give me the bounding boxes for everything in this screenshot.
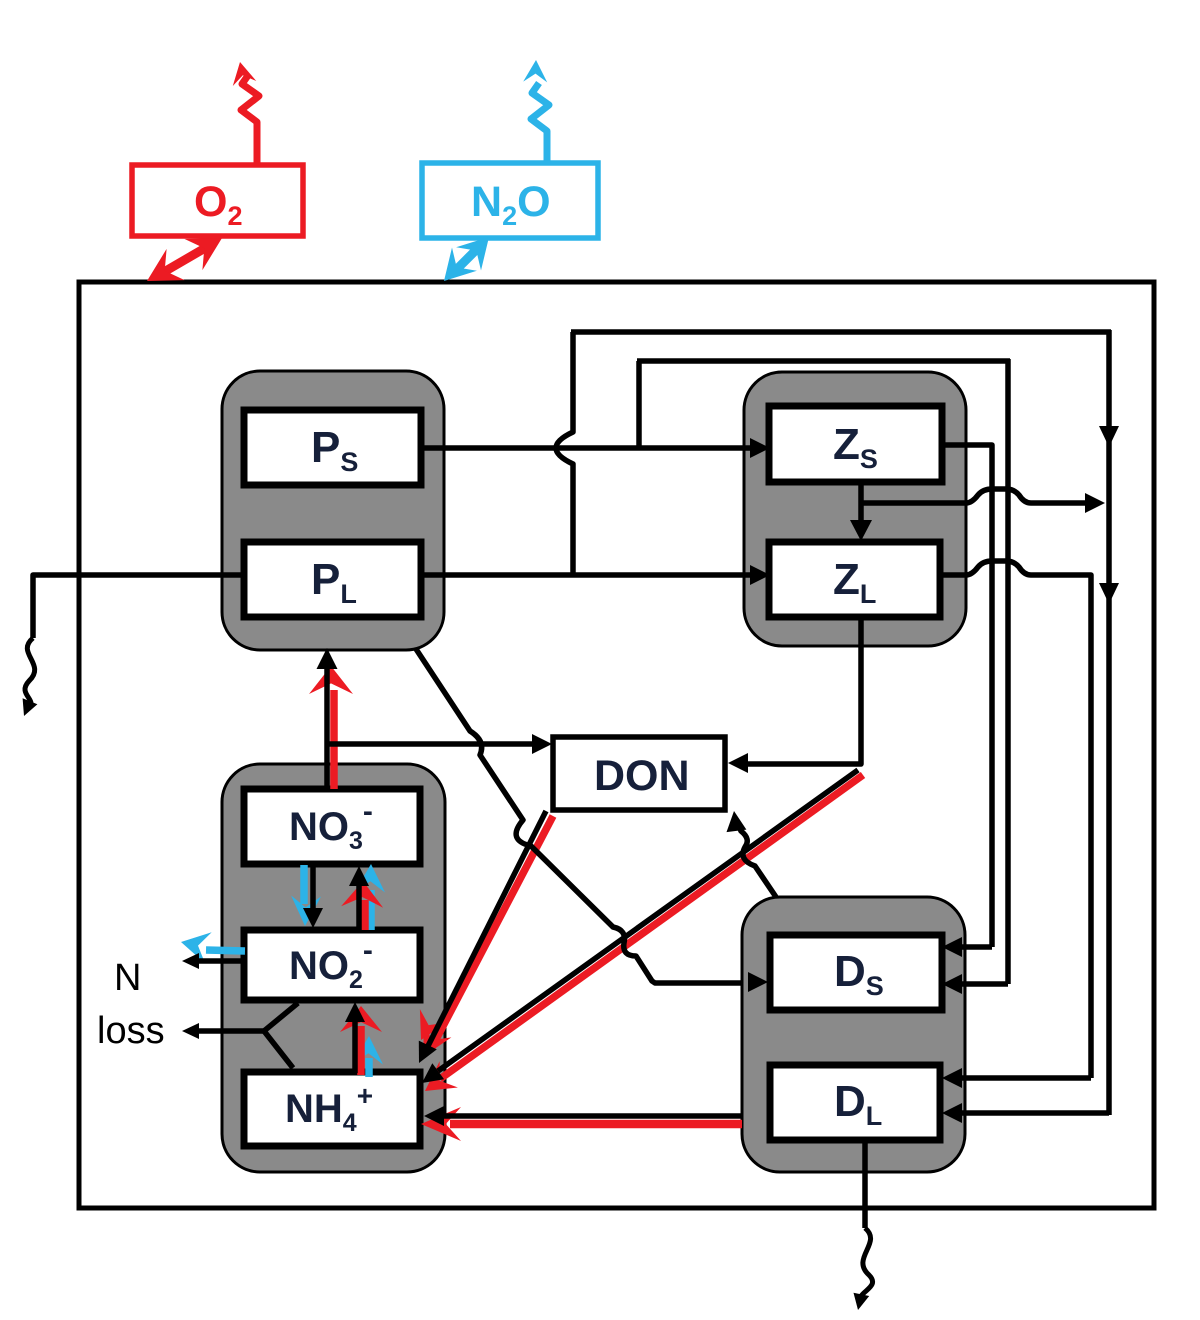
box O2 red xyxy=(132,165,303,236)
wire loop horizontal y361 xyxy=(637,358,1010,364)
svg-text:N: N xyxy=(114,957,141,999)
red arrow Z_L to NH4 xyxy=(440,775,863,1079)
box NH4 xyxy=(244,1072,420,1146)
box P_S xyxy=(244,410,421,485)
box N2O cyan xyxy=(422,163,598,238)
box P_L xyxy=(244,542,421,617)
wire DON down to NH4 black xyxy=(428,811,546,1046)
box D_L xyxy=(770,1065,940,1140)
container group D (detritus) xyxy=(742,897,965,1172)
wire into D_L right edge from x1109 xyxy=(958,1110,1109,1116)
wire into DON left edge from NO3-P riser xyxy=(327,741,534,747)
cyan arrow NO2 to NO3 xyxy=(367,890,375,930)
wire into D_S right edge from x1008 xyxy=(958,981,1008,987)
wire right vertical x1109 down to D_L level xyxy=(1106,330,1112,1115)
wire D_S up to DON bottom with zigzag hop xyxy=(737,822,776,897)
cyan double arrow N2O to domain xyxy=(453,246,480,273)
svg-text:loss: loss xyxy=(97,1010,165,1052)
wire Z_S down to Z_L with arrowhead xyxy=(858,482,864,520)
wire riser x573 from P_L line to top loop with hop over P_S wire xyxy=(556,332,573,575)
wire NO2 up to NO3 black xyxy=(356,886,362,931)
container group N (nutrients) xyxy=(222,764,445,1172)
wire top loop horizontal to right xyxy=(571,329,1111,335)
wire D_L left to NH4 black xyxy=(440,1113,742,1119)
wire into D_L right edge from x1091 xyxy=(958,1075,1091,1081)
wire Z_L right to vertical x1091 with hop xyxy=(940,561,1091,1078)
cyan arrow NO2 to N loss xyxy=(206,950,245,951)
wire P container diagonal to D_S with hops xyxy=(416,649,742,983)
wire Z_L bottom down to DON right edge xyxy=(744,615,861,764)
wire NH4 up to NO2 black xyxy=(352,1022,358,1073)
wire NO3 down to NO2 black xyxy=(310,862,316,908)
wire Z_L area diagonal down to NH4 black xyxy=(438,770,858,1071)
box Z_L xyxy=(769,542,940,617)
box Z_S xyxy=(769,406,942,482)
wire P_L left to exterior squiggle arrow xyxy=(33,575,245,638)
cyan arrow NH4 to NO2 xyxy=(365,1058,373,1077)
red arrow NO2 to NO3 xyxy=(361,900,369,930)
red squiggle above O2 box xyxy=(241,74,259,164)
red arrow DON to NH4 xyxy=(431,816,553,1049)
red arrow NO3 to P container xyxy=(330,690,338,789)
wire into D_S right edge from x992 xyxy=(958,944,992,950)
wire NO2 left black arrow xyxy=(198,958,245,964)
cyan arrow NO3 to NO2 (N2O pathway) xyxy=(300,865,308,904)
wire Z_S right edge to vertical x992 xyxy=(941,445,992,947)
container group Z (zooplankton) xyxy=(744,372,966,646)
wire Z_S excretion y503 with hop, arrow into right vertical xyxy=(861,489,1086,503)
wire NO3 up to P container black xyxy=(324,668,330,790)
box NO3 xyxy=(244,789,420,864)
box D_S xyxy=(770,935,942,1010)
wire vertical x1008 down to D_S xyxy=(1005,359,1011,984)
wire P_L to Z_L with arrowhead xyxy=(423,572,752,578)
red arrow NH4 to NO2 xyxy=(357,1026,365,1075)
red arrowhead into container edge upper xyxy=(420,1009,447,1040)
wire P_S to Z_S with arrowhead xyxy=(423,445,752,451)
wire N loss bracket from NO2 and NH4 with arrowhead xyxy=(264,1003,298,1068)
red double arrow O2 to domain xyxy=(157,244,212,276)
cyan squiggle above N2O box xyxy=(531,83,549,164)
container group P (phytoplankton) xyxy=(222,371,444,650)
outer domain border (ocean box) xyxy=(79,282,1154,1208)
box DON xyxy=(553,737,725,810)
wire riser x639 from P_S wire up xyxy=(636,361,642,448)
box NO2 xyxy=(244,930,420,1000)
red arrow D_L to NH4 xyxy=(450,1120,742,1129)
wire D_L bottom sinking squiggle xyxy=(862,1140,868,1228)
svg-text:DON: DON xyxy=(594,752,690,800)
